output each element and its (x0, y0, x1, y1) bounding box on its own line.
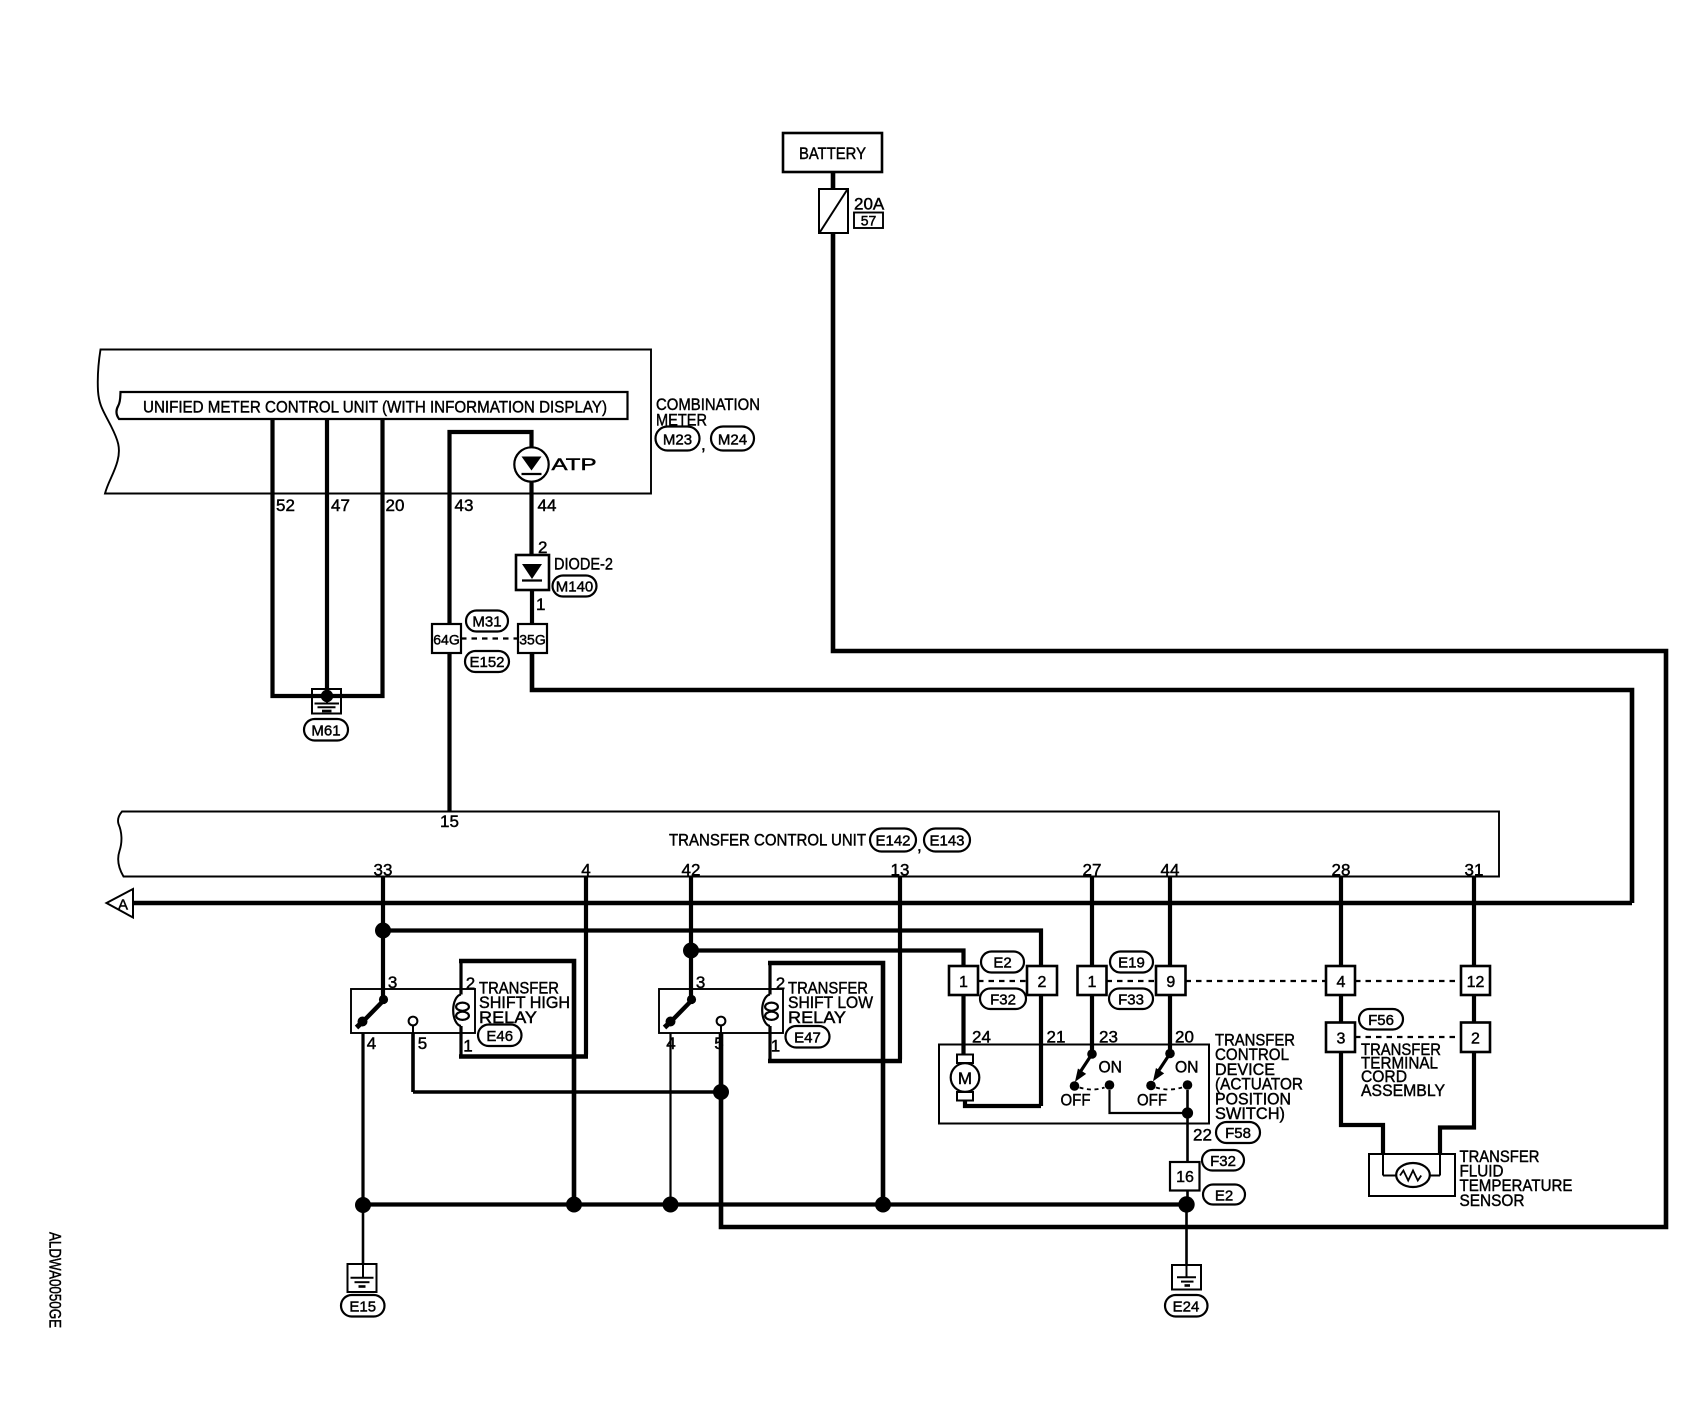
junction pin33 net (375, 923, 391, 939)
wire TCU pin 33 (381, 877, 385, 997)
connector F32 lower (1202, 1150, 1244, 1171)
transfer control unit box (118, 812, 1499, 877)
svg-text:1: 1 (959, 974, 968, 991)
svg-text:F56: F56 (1368, 1012, 1394, 1029)
wire switch1 output (1110, 1090, 1183, 1113)
terminal 16 (1170, 1162, 1200, 1191)
svg-text:4: 4 (1337, 974, 1346, 991)
connector E2 (981, 952, 1024, 973)
wire TCU pin 13 (898, 877, 902, 1060)
unified meter control unit inner box (116, 392, 627, 419)
junction ground bus E47 pin4 (663, 1197, 679, 1213)
ATP indicator lamp (514, 447, 596, 481)
A line (133, 901, 1632, 906)
svg-text:F58: F58 (1225, 1125, 1251, 1142)
connector M140 (553, 576, 597, 597)
wire ground bus (363, 1202, 1187, 1206)
svg-text:F32: F32 (990, 992, 1016, 1009)
svg-text:64G: 64G (433, 632, 459, 648)
svg-text:E152: E152 (469, 654, 504, 671)
wire diode to 35G (530, 590, 534, 624)
svg-text:1: 1 (536, 595, 545, 614)
connector M23 (656, 427, 700, 451)
svg-text:F33: F33 (1118, 992, 1144, 1009)
combination meter outer box (98, 350, 651, 494)
wire net pin42 to motor plus (691, 951, 964, 967)
actuator switch 1 (1061, 1049, 1123, 1109)
svg-text:22: 22 (1193, 1126, 1212, 1145)
svg-text:42: 42 (682, 861, 701, 880)
connector E142 (870, 829, 916, 852)
svg-text:M: M (958, 1069, 972, 1088)
dashed junction 4-12 (1355, 980, 1461, 982)
terminal 3 F56 (1326, 1023, 1355, 1053)
connector F33 (1109, 989, 1153, 1010)
svg-text:47: 47 (331, 496, 350, 515)
relay E47 transfer shift low relay (659, 963, 902, 1205)
wire TCU pin 44 (1168, 877, 1172, 1051)
connector M31 (466, 611, 508, 632)
svg-text:OFF: OFF (1061, 1091, 1091, 1110)
terminal 1 E2/F32 (949, 966, 978, 995)
svg-text:3: 3 (1337, 1031, 1346, 1048)
svg-text:2: 2 (466, 974, 475, 993)
dashed connector junction 64G-35G (461, 637, 518, 639)
battery (783, 133, 882, 172)
junction pin5 bus (713, 1084, 729, 1100)
junction switch outputs (1182, 1107, 1193, 1118)
svg-text:2: 2 (1038, 974, 1047, 991)
svg-text:33: 33 (374, 861, 393, 880)
wire pin 44 ATP to diode (529, 482, 533, 555)
connector M61 (304, 719, 348, 741)
svg-text:DIODE-2: DIODE-2 (554, 555, 613, 574)
svg-text:M140: M140 (556, 579, 594, 596)
wire TCU pin 28 to F56 (1341, 877, 1383, 1154)
svg-text:E142: E142 (875, 833, 910, 850)
svg-text:44: 44 (1161, 861, 1180, 880)
wire TCU pin 31 to F56 (1440, 877, 1474, 1154)
svg-text:13: 13 (891, 861, 910, 880)
svg-text:20A: 20A (854, 195, 885, 214)
svg-text:E15: E15 (349, 1299, 376, 1316)
svg-text:44: 44 (538, 496, 557, 515)
wire 64G down to TCU pin 15 (447, 653, 451, 811)
svg-text:M24: M24 (718, 432, 747, 449)
fuse 20A 57 (819, 189, 885, 233)
transfer fluid temperature sensor (1369, 1154, 1455, 1196)
wire meter pin 52 (273, 419, 328, 696)
terminal 64G (432, 624, 461, 653)
wire meter pin 47 (325, 419, 329, 696)
device label (1215, 1031, 1303, 1124)
svg-text:16: 16 (1176, 1169, 1194, 1186)
terminal 9 E19/F33 (1156, 966, 1186, 995)
wire TCU pin 27 (1090, 877, 1094, 1051)
svg-text:57: 57 (861, 213, 877, 229)
svg-text:20: 20 (386, 496, 405, 515)
dashed junction E19-F33 (1107, 980, 1157, 982)
terminal 35G (518, 624, 547, 653)
svg-text:1: 1 (1088, 974, 1097, 991)
svg-text:3: 3 (696, 973, 705, 992)
dashed junction 3-2 (1355, 1036, 1461, 1038)
svg-text:SENSOR: SENSOR (1460, 1191, 1525, 1210)
terminal 2 F56 (1461, 1023, 1490, 1053)
wire E15 drop (362, 1205, 365, 1264)
svg-text:E24: E24 (1173, 1299, 1200, 1316)
svg-text:1: 1 (771, 1037, 780, 1056)
junction ground bus E24 (1178, 1196, 1194, 1212)
wire E46 pin4 to ground (361, 1033, 364, 1205)
svg-text:E2: E2 (993, 955, 1011, 972)
svg-text:5: 5 (714, 1034, 723, 1053)
svg-text:27: 27 (1083, 861, 1102, 880)
wire relay pin5 bus (413, 1090, 721, 1094)
transfer control device box F58 (939, 1045, 1209, 1124)
connector E152 (465, 651, 509, 672)
svg-text:4: 4 (367, 1034, 376, 1053)
connector E47 (786, 1026, 830, 1048)
wire 16 to ground bus (1186, 1191, 1189, 1205)
wire TCU pin 42 (689, 877, 693, 997)
wire 35G feed right and down to A line (532, 653, 1632, 903)
wire pin 24 inside device (961, 995, 965, 1055)
svg-text:E143: E143 (929, 833, 964, 850)
connector E2 lower (1203, 1185, 1245, 1205)
svg-text:A: A (118, 897, 128, 914)
svg-text:35G: 35G (519, 632, 545, 648)
svg-text:2: 2 (1471, 1031, 1480, 1048)
wire motor minus link (965, 1100, 1041, 1106)
svg-text:F32: F32 (1210, 1153, 1236, 1170)
svg-text:15: 15 (440, 812, 459, 831)
svg-text:TRANSFER CONTROL UNIT: TRANSFER CONTROL UNIT (669, 831, 866, 850)
wire ground bus to E24 (1185, 1204, 1188, 1265)
connector E15 (341, 1295, 385, 1317)
svg-text:4: 4 (581, 861, 590, 880)
svg-text:12: 12 (1467, 974, 1485, 991)
motor M (951, 1055, 980, 1101)
svg-text:SWITCH): SWITCH) (1215, 1104, 1285, 1123)
junction ground bus E46 coil (566, 1197, 582, 1213)
svg-text:M61: M61 (311, 723, 340, 740)
svg-text:28: 28 (1332, 861, 1351, 880)
combination meter label (656, 395, 760, 430)
svg-text:E46: E46 (486, 1028, 513, 1045)
svg-text:31: 31 (1465, 861, 1484, 880)
svg-text:9: 9 (1166, 974, 1175, 991)
svg-text:3: 3 (388, 973, 397, 992)
junction M61 (321, 690, 333, 702)
svg-text:2: 2 (776, 974, 785, 993)
svg-text:,: , (701, 435, 706, 454)
svg-text:E2: E2 (1215, 1188, 1233, 1205)
wire switch2 output pin 22 (1186, 1090, 1189, 1162)
sensor label (1460, 1147, 1573, 1210)
connector F32 (980, 989, 1026, 1010)
ground E24 (1172, 1265, 1201, 1290)
terminal 4 F56 (1326, 966, 1355, 995)
svg-text:ON: ON (1175, 1058, 1199, 1077)
wire TCU pin 4 (584, 877, 588, 1055)
svg-text:M23: M23 (663, 432, 692, 449)
connector E143 (924, 829, 970, 852)
connector E19 (1110, 952, 1153, 973)
svg-text:E19: E19 (1118, 955, 1145, 972)
wire E47 pin4 to ground (669, 1033, 671, 1205)
dashed junction 9 to 4 (1186, 980, 1327, 982)
connector F58 (1216, 1122, 1260, 1143)
arrow A (107, 889, 134, 918)
transfer terminal cord assembly label (1361, 1040, 1445, 1100)
connector M24 (711, 427, 754, 451)
svg-text:43: 43 (455, 496, 474, 515)
diode-2 (516, 555, 549, 590)
connector F56 (1359, 1009, 1403, 1030)
svg-text:ATP: ATP (552, 455, 597, 474)
svg-text:E47: E47 (794, 1030, 821, 1047)
wire E46 pin5 down (411, 1033, 415, 1092)
svg-text:OFF: OFF (1137, 1091, 1167, 1110)
svg-text:ALDWA0050GE: ALDWA0050GE (46, 1232, 64, 1328)
connector E24 (1165, 1295, 1208, 1317)
wire net pin33 to motor minus (383, 931, 1041, 967)
wire pin 21 inside device (1039, 995, 1043, 1106)
ground E15 (348, 1264, 377, 1292)
dashed junction E2-F32 (978, 980, 1027, 982)
svg-text:5: 5 (418, 1034, 427, 1053)
terminal 12 F56 (1461, 966, 1490, 995)
junction ground bus E15 (355, 1197, 371, 1213)
svg-text:M31: M31 (472, 614, 501, 631)
junction ground bus E47 coil (875, 1197, 891, 1213)
wire battery to fuse (831, 172, 836, 190)
TCU bottom pin labels (374, 861, 1484, 880)
terminal 2 E2/F32 (1027, 966, 1057, 995)
terminal 1 E19/F33 (1078, 966, 1107, 995)
svg-text:RELAY: RELAY (788, 1008, 846, 1027)
actuator switch 2 (1137, 1049, 1199, 1110)
wire meter pin 20 (327, 419, 383, 696)
svg-text:UNIFIED METER CONTROL UNIT (WI: UNIFIED METER CONTROL UNIT (WITH INFORMA… (143, 398, 607, 417)
svg-text:ON: ON (1099, 1058, 1123, 1077)
junction pin42 net (683, 943, 699, 959)
svg-text:1: 1 (463, 1037, 472, 1056)
wire ATP to pin 43 (450, 432, 532, 624)
wire battery feed: fuse down, right, down right edge, bottom, up to relay pin5 (721, 233, 1666, 1227)
ground M61 (312, 689, 341, 714)
connector E46 (478, 1025, 522, 1047)
svg-text:52: 52 (276, 496, 295, 515)
svg-text:BATTERY: BATTERY (799, 144, 866, 163)
svg-text:,: , (917, 836, 922, 855)
svg-text:ASSEMBLY: ASSEMBLY (1361, 1081, 1445, 1100)
relay E46 transfer shift high relay (351, 961, 588, 1205)
